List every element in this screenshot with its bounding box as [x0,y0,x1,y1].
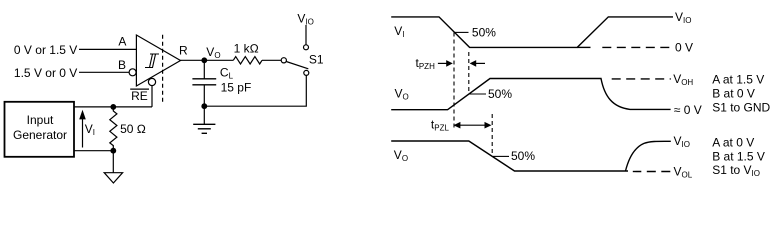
wire VO to capacitor [203,60,205,79]
op-amp U1 buffer triangle [136,35,180,86]
dashed cursor tPZH end [468,52,470,94]
svg-text:VIO: VIO [297,12,313,27]
svg-text:RE: RE [131,89,148,103]
wire resistor to switch [262,59,282,61]
input generator box [5,102,75,157]
svg-text:0 V or 1.5 V: 0 V or 1.5 V [14,43,77,57]
resistor 1 kOhm [233,57,262,64]
node junction RE/50ohm [110,104,116,110]
dashed cursor tPZL end [491,114,493,156]
ground IEC [193,124,215,133]
wire RE vertical [151,86,153,107]
VO tPZH waveform trace [391,79,670,110]
pin B inverting bubble [129,69,136,76]
VI arrowhead [79,110,86,120]
wire lower throw to ground rail [204,75,306,106]
svg-text:≈ 0 V: ≈ 0 V [674,103,702,117]
svg-text:VIO: VIO [674,134,690,149]
svg-text:Input: Input [27,113,54,127]
0V dashed reference [598,46,670,48]
wire RE to generator [74,106,152,108]
node junction generator bottom [110,148,116,154]
pin RE bubble [148,78,155,85]
VOH dashed reference [612,78,671,80]
svg-text:tPZL: tPZL [431,118,450,133]
VI arrow [82,114,84,148]
50% tick VI [454,31,468,33]
wire output R [181,59,234,61]
node junction CL bottom [201,103,207,109]
svg-text:B at 0 V: B at 0 V [712,86,755,100]
switch S1 lever [286,62,308,69]
resistor 50 Ohm [110,107,117,151]
VI waveform trace [391,17,673,48]
wire A input [79,48,136,50]
svg-text:VI: VI [85,122,95,137]
wire generator bottom [74,150,113,152]
svg-text:VO: VO [394,148,408,163]
svg-text:1 kΩ: 1 kΩ [234,41,259,55]
tPZH arrow left [438,62,447,64]
svg-text:1.5 V or 0 V: 1.5 V or 0 V [14,66,77,80]
switch S1 upper throw contact [304,45,309,50]
svg-text:0 V: 0 V [675,40,693,54]
svg-text:A: A [118,35,126,49]
svg-text:tPZH: tPZH [416,56,436,71]
dashed reference lines [598,47,671,171]
svg-text:B at 1.5 V: B at 1.5 V [712,149,765,163]
svg-text:S1: S1 [309,53,324,67]
0V reference solid stub [577,46,590,48]
svg-text:VOH: VOH [673,72,693,87]
50% tick VO tPZL [493,155,509,157]
capacitor CL plates [192,79,216,85]
50% tick VO tPZH [469,93,486,95]
tPZL double arrow [457,124,488,126]
VOL dashed reference [633,171,671,173]
svg-text:VO: VO [395,87,409,102]
dashed cursor tPZH start [453,33,455,131]
svg-text:15 pF: 15 pF [221,81,252,95]
svg-text:50%: 50% [488,87,512,101]
ground triangle [104,173,122,183]
svg-text:VOL: VOL [674,165,693,180]
svg-text:Generator: Generator [13,128,67,142]
svg-text:S1 to GND: S1 to GND [712,101,770,115]
svg-text:VIO: VIO [675,10,691,25]
svg-text:50 Ω: 50 Ω [120,122,146,136]
wire B input [79,71,129,73]
switch S1 pole contact [281,58,286,63]
svg-text:B: B [118,58,126,72]
VO tPZL waveform trace [391,141,628,171]
svg-text:VI: VI [394,24,404,39]
svg-text:A at 1.5 V: A at 1.5 V [712,73,764,87]
switch S1 lower throw contact [304,70,309,75]
svg-text:R: R [179,43,188,57]
svg-text:VO: VO [206,45,220,60]
VO tPZL recovery curve [626,141,671,171]
svg-text:50%: 50% [511,149,535,163]
node junction VO [201,57,207,63]
svg-text:A at 0 V: A at 0 V [712,136,754,150]
wire VIO terminal [305,25,307,45]
tPZH arrow right [476,62,485,64]
schmitt hysteresis symbol [145,54,159,68]
svg-text:S1 to VIO: S1 to VIO [712,163,760,178]
wire capacitor to ground [203,85,205,125]
svg-text:CL: CL [220,66,234,81]
svg-text:50%: 50% [472,25,496,39]
dashed device boundary [162,35,164,104]
wire to ground arrow [112,151,114,173]
